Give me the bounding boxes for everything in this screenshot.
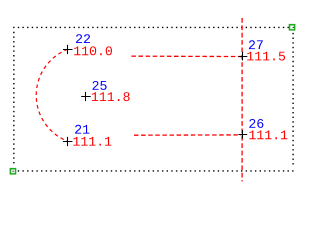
dashed bottom line 21-26 (134, 134, 242, 136)
point cross 22 (63, 45, 73, 54)
point cross 21 (63, 137, 73, 146)
label value 110.0 (74, 46, 112, 55)
label number 27 (249, 40, 263, 49)
handle bottom-left (10, 168, 17, 175)
handle top-right (289, 24, 296, 31)
label value 111.8 (92, 92, 130, 101)
dashed vertical line (241, 18, 243, 181)
label value 111.5 (247, 52, 285, 61)
point cross 27 (239, 52, 248, 61)
point cross 25 (81, 92, 91, 101)
label value 111.1 (point 26) (249, 131, 287, 140)
dashed arc 22-21 center 25 (36, 49, 68, 141)
label number 25 (93, 81, 107, 90)
selection box left edge (13, 32, 15, 166)
label number 21 (75, 125, 89, 134)
selection box right edge (292, 33, 294, 166)
label value 111.1 (point 21) (73, 137, 111, 146)
dashed top line 22-27 (131, 55, 241, 57)
label number 26 (249, 119, 263, 128)
selection box top edge (13, 26, 294, 28)
label number 22 (76, 34, 90, 43)
point cross 26 (239, 130, 248, 139)
selection box bottom edge (13, 170, 294, 172)
